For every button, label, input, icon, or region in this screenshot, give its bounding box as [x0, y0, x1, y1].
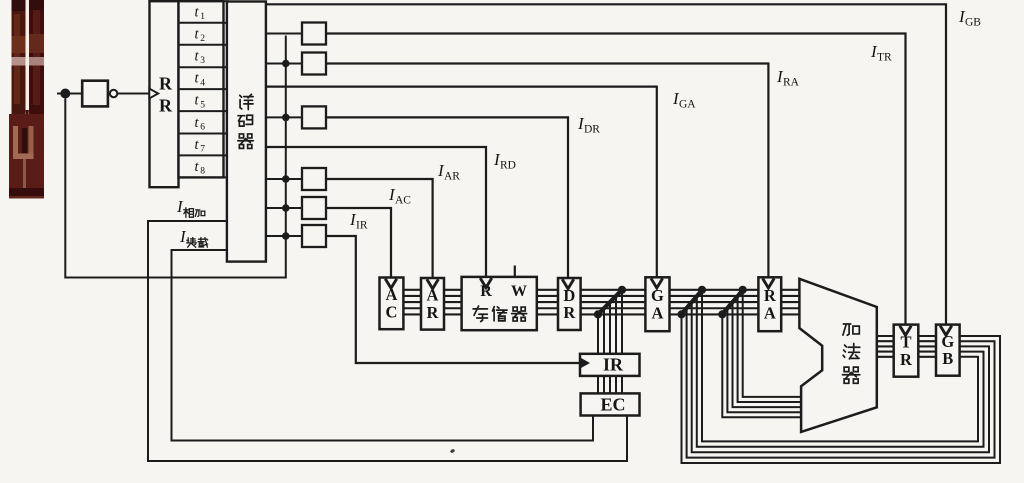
- svg-text:A: A: [764, 304, 776, 323]
- svg-text:R: R: [159, 96, 173, 116]
- svg-text:IR: IR: [356, 220, 368, 232]
- svg-text:DR: DR: [584, 124, 600, 136]
- svg-text:R: R: [764, 286, 777, 305]
- svg-text:7: 7: [200, 145, 205, 155]
- svg-text:RA: RA: [783, 77, 800, 89]
- svg-text:AR: AR: [444, 171, 460, 183]
- svg-text:8: 8: [200, 167, 205, 177]
- svg-text:R: R: [563, 303, 576, 322]
- svg-text:AC: AC: [395, 195, 411, 207]
- svg-text:RD: RD: [500, 160, 516, 172]
- svg-text:2: 2: [200, 34, 205, 44]
- svg-text:R: R: [159, 74, 173, 94]
- svg-text:1: 1: [200, 12, 205, 22]
- svg-text:C: C: [385, 302, 397, 321]
- svg-text:R: R: [900, 350, 913, 369]
- svg-text:A: A: [651, 304, 663, 323]
- svg-text:5: 5: [200, 100, 205, 110]
- svg-text:GA: GA: [679, 99, 696, 111]
- svg-text:TR: TR: [877, 52, 892, 64]
- svg-text:GB: GB: [965, 17, 981, 29]
- svg-text:R: R: [427, 303, 440, 322]
- svg-text:3: 3: [200, 56, 205, 66]
- svg-text:EC: EC: [600, 395, 625, 415]
- svg-text:B: B: [942, 349, 953, 368]
- svg-text:W: W: [511, 283, 527, 300]
- svg-text:4: 4: [200, 78, 205, 88]
- svg-text:IR: IR: [603, 355, 624, 375]
- svg-text:6: 6: [200, 123, 205, 133]
